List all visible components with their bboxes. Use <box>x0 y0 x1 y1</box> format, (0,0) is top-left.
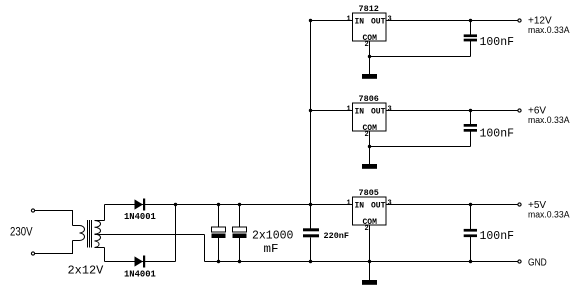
ground: below U3 <box>362 280 377 285</box>
wire: input bus vertical x=311 <box>310 21 312 205</box>
ground: below U1 <box>362 74 377 79</box>
capacitor C1 1000mF <box>212 227 226 238</box>
node: 220nF bottom <box>309 260 312 263</box>
svg-text:2x1000: 2x1000 <box>252 230 294 243</box>
node: D2 riser on rail <box>174 203 177 206</box>
svg-text:2x12V: 2x12V <box>68 264 104 278</box>
wire: center tap line <box>95 234 205 236</box>
wire: C3 upper lead <box>470 21 472 35</box>
node: U1 COM junction <box>368 55 371 58</box>
wire: 7805 OUT rail <box>386 204 518 206</box>
svg-text:OUT: OUT <box>371 108 386 117</box>
transformer TR1 primary winding <box>80 226 85 241</box>
wire: 220nF lower lead <box>310 238 312 262</box>
node: C3 top <box>469 19 472 22</box>
svg-text:2: 2 <box>365 41 369 49</box>
svg-text:1: 1 <box>347 106 351 114</box>
wire: primary coil stub bottom <box>73 240 80 242</box>
svg-text:max.0.33A: max.0.33A <box>528 25 570 36</box>
svg-text:7806: 7806 <box>359 94 379 104</box>
transformer TR1 core <box>88 220 92 248</box>
terminal: +6V output <box>518 109 521 112</box>
svg-text:IN: IN <box>355 202 365 211</box>
regulator U2 7806 <box>347 94 392 139</box>
node: C5 top <box>469 203 472 206</box>
wire: primary coil stub top <box>73 225 80 227</box>
wire: C4 upper lead <box>470 111 472 125</box>
wire: 7812 COM drop <box>369 41 371 75</box>
wire: ground rail y=261 <box>205 261 518 263</box>
node: C1 bottom <box>217 260 220 263</box>
wire: center tap drop <box>204 235 206 262</box>
ground: below U2 <box>362 164 377 169</box>
diode D1 1N4001 <box>124 199 156 223</box>
terminal: +12V output <box>518 19 521 22</box>
wire: 7806 COM link to C4 <box>370 146 471 148</box>
node: C1 top <box>217 203 220 206</box>
node: C5 bottom <box>469 260 472 263</box>
capacitor C5 100nF <box>464 229 514 243</box>
svg-text:GND: GND <box>528 258 547 269</box>
wire: C4 lower lead <box>470 132 472 147</box>
terminal: mains bottom <box>31 252 34 255</box>
wire: 7805 COM drop <box>369 225 371 281</box>
svg-text:3: 3 <box>388 106 392 114</box>
capacitor C4 100nF <box>464 124 514 140</box>
svg-text:max.0.33A: max.0.33A <box>528 115 570 126</box>
svg-text:220nF: 220nF <box>324 231 350 241</box>
wire: 7806 OUT rail <box>386 110 518 112</box>
wire: C1 lower lead <box>218 238 220 262</box>
wire: primary left vertical top <box>72 211 74 226</box>
wire: D2 cathode riser <box>175 205 177 262</box>
node: U2 COM junction <box>368 145 371 148</box>
wire: 7806 COM drop <box>369 131 371 165</box>
svg-text:mF: mF <box>264 243 279 256</box>
svg-text:OUT: OUT <box>371 18 386 27</box>
terminal: mains top <box>31 209 34 212</box>
svg-text:2: 2 <box>365 225 369 233</box>
node: C2 bottom <box>238 260 241 263</box>
wire: mains bottom lead <box>35 253 73 255</box>
svg-text:IN: IN <box>355 108 365 117</box>
svg-text:3: 3 <box>388 16 392 24</box>
terminal: +5V output <box>518 203 521 206</box>
node: C4 top <box>469 109 472 112</box>
wire: bus to 7812 IN <box>311 20 353 22</box>
wire: 7812 OUT rail <box>386 20 518 22</box>
svg-text:1N4001: 1N4001 <box>124 269 156 280</box>
wire: D2 output line <box>105 261 176 263</box>
node: C2 top <box>238 203 241 206</box>
label 2x1000 mF <box>252 230 294 257</box>
wire: C5 lower lead <box>470 237 472 262</box>
wire: C2 upper lead <box>239 205 241 228</box>
svg-text:230V: 230V <box>10 227 33 239</box>
transformer TR1 secondary winding <box>95 221 101 248</box>
wire: secondary bottom stub <box>95 247 105 249</box>
regulator U3 7805 <box>347 188 392 233</box>
wire: secondary top stub <box>95 220 105 222</box>
terminal: GND output <box>518 260 521 263</box>
svg-text:OUT: OUT <box>371 202 386 211</box>
capacitor C6 220nF <box>303 228 349 241</box>
wire: C3 lower lead <box>470 41 472 56</box>
svg-text:max.0.33A: max.0.33A <box>528 210 570 221</box>
node: bus bottom on rail <box>309 203 312 206</box>
wire: C5 upper lead <box>470 205 472 230</box>
svg-text:1: 1 <box>347 16 351 24</box>
capacitor C2 1000mF <box>233 227 247 238</box>
svg-text:1: 1 <box>347 200 351 208</box>
svg-text:1N4001: 1N4001 <box>124 211 156 222</box>
svg-text:3: 3 <box>388 200 392 208</box>
svg-text:7805: 7805 <box>359 188 379 198</box>
wire: 220nF upper lead <box>310 205 312 229</box>
wire: C2 lower lead <box>239 238 241 262</box>
svg-text:7812: 7812 <box>359 4 379 14</box>
node: U3 COM on ground rail <box>368 260 371 263</box>
svg-text:2: 2 <box>365 131 369 139</box>
node: bus / 7806 IN <box>309 109 312 112</box>
wire: C1 upper lead <box>218 205 220 228</box>
wire: main positive rail y=203 <box>105 204 353 206</box>
wire: mains top lead <box>35 210 73 212</box>
wire: secondary top riser <box>104 205 106 221</box>
svg-text:100nF: 100nF <box>480 230 515 243</box>
wire: 7812 COM link to C3 <box>370 56 471 58</box>
wire: secondary bottom drop <box>104 248 106 262</box>
svg-text:100nF: 100nF <box>480 36 515 49</box>
capacitor C3 100nF <box>464 34 514 49</box>
wire: primary left vertical bottom <box>72 241 74 254</box>
svg-text:IN: IN <box>355 18 365 27</box>
diode D2 1N4001 <box>124 256 156 280</box>
svg-text:100nF: 100nF <box>480 127 515 140</box>
regulator U1 7812 <box>347 4 392 49</box>
node: bus top corner <box>309 19 312 22</box>
wire: bus to 7806 IN <box>311 110 353 112</box>
